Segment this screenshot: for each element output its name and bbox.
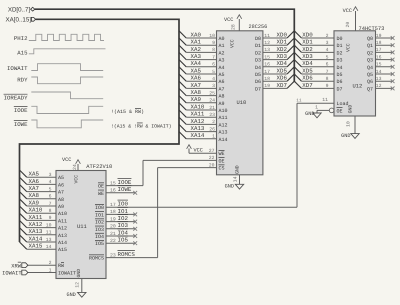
svg-text:7: 7	[326, 69, 329, 75]
svg-text:4: 4	[212, 76, 215, 82]
svg-text:VCC: VCC	[224, 17, 233, 23]
svg-text:8: 8	[326, 76, 329, 82]
svg-text:A9: A9	[58, 204, 64, 210]
svg-text:XA11: XA11	[191, 111, 205, 118]
svg-text:Q4: Q4	[367, 65, 373, 71]
svg-text:A7: A7	[58, 190, 64, 196]
svg-text:D3: D3	[255, 58, 261, 64]
svg-text:D0: D0	[255, 36, 261, 42]
svg-text:D7: D7	[337, 86, 343, 92]
svg-text:26: 26	[209, 126, 215, 132]
svg-text:XD2: XD2	[277, 46, 288, 53]
svg-text:15: 15	[376, 62, 382, 68]
svg-text:4: 4	[326, 47, 329, 53]
svg-text:6: 6	[212, 62, 215, 68]
svg-text:A14: A14	[219, 137, 228, 143]
svg-text:XA0: XA0	[191, 31, 202, 38]
svg-text:XA10: XA10	[29, 207, 43, 214]
svg-text:XA6: XA6	[29, 178, 40, 185]
svg-text:U12: U12	[353, 84, 363, 90]
svg-text:16: 16	[376, 54, 382, 60]
svg-text:9: 9	[49, 215, 52, 221]
svg-text:5: 5	[49, 186, 52, 192]
svg-text:A3: A3	[219, 58, 225, 64]
svg-text:D2: D2	[337, 50, 343, 56]
svg-text:D6: D6	[337, 79, 343, 85]
svg-text:A8: A8	[219, 94, 225, 100]
svg-text:24: 24	[72, 164, 78, 170]
svg-text:4: 4	[49, 179, 52, 185]
svg-text:D7: D7	[255, 86, 261, 92]
svg-text:13: 13	[376, 76, 382, 82]
svg-text:A13: A13	[219, 130, 228, 136]
svg-text:XA[0..15]: XA[0..15]	[6, 17, 32, 24]
svg-text:A7: A7	[219, 86, 225, 92]
svg-text:11: 11	[296, 98, 302, 103]
svg-text:XA13: XA13	[29, 228, 43, 235]
svg-text:VCC: VCC	[343, 8, 352, 14]
svg-text:2: 2	[326, 33, 329, 39]
svg-text:GND: GND	[305, 111, 314, 117]
svg-text:D4: D4	[337, 65, 343, 71]
svg-text:IO3: IO3	[118, 222, 129, 229]
svg-text:6: 6	[49, 194, 52, 200]
svg-text:IOOE: IOOE	[14, 107, 28, 114]
svg-text:13: 13	[264, 47, 270, 53]
svg-text:XA7: XA7	[29, 185, 40, 192]
svg-text:XD4: XD4	[277, 60, 288, 67]
svg-text:9: 9	[326, 83, 329, 89]
svg-text:A13: A13	[58, 233, 67, 239]
svg-text:8: 8	[212, 47, 215, 53]
svg-text:24: 24	[209, 98, 215, 104]
svg-text:D2: D2	[255, 50, 261, 56]
svg-text:14: 14	[376, 69, 382, 75]
svg-text:OE: OE	[337, 108, 343, 114]
svg-text:PHI2: PHI2	[14, 35, 28, 42]
svg-text:XD3: XD3	[302, 53, 313, 60]
svg-text:74HCT573: 74HCT573	[359, 26, 385, 32]
svg-text:28C256: 28C256	[249, 24, 268, 30]
svg-text:IO1: IO1	[118, 208, 129, 215]
svg-text:U10: U10	[237, 100, 247, 106]
svg-text:A15: A15	[17, 49, 28, 56]
svg-text:IO1: IO1	[95, 212, 104, 218]
svg-text:13: 13	[46, 237, 52, 243]
svg-text:17: 17	[376, 47, 382, 53]
svg-text:Q0: Q0	[367, 36, 373, 42]
svg-text:XA14: XA14	[29, 235, 43, 242]
svg-text:25: 25	[209, 90, 215, 96]
svg-text:18: 18	[264, 76, 270, 82]
svg-text:XD0: XD0	[277, 31, 288, 38]
svg-text:IOWE: IOWE	[118, 186, 132, 193]
svg-text:XRW: XRW	[11, 263, 21, 269]
svg-text:D6: D6	[255, 79, 261, 85]
svg-text:27: 27	[209, 148, 215, 154]
svg-text:IO2: IO2	[95, 220, 104, 226]
svg-text:Q6: Q6	[367, 79, 373, 85]
svg-text:15: 15	[264, 54, 270, 60]
svg-text:2: 2	[212, 119, 215, 125]
svg-text:XA7: XA7	[191, 82, 202, 89]
svg-text:XA2: XA2	[191, 46, 202, 53]
svg-text:GND: GND	[66, 292, 75, 298]
svg-text:CS: CS	[219, 166, 225, 172]
svg-text:1: 1	[315, 105, 318, 111]
svg-text:A9: A9	[219, 101, 225, 107]
svg-text:A12: A12	[58, 226, 67, 232]
svg-text:IOOE: IOOE	[118, 179, 132, 186]
svg-text:A12: A12	[219, 122, 228, 128]
svg-text:XA12: XA12	[191, 118, 205, 125]
svg-text:XA10: XA10	[191, 103, 205, 110]
svg-text:XD4: XD4	[302, 60, 313, 67]
svg-text:U11: U11	[77, 224, 87, 230]
svg-text:19: 19	[264, 83, 270, 89]
svg-text:20: 20	[209, 162, 215, 168]
svg-text:VCC: VCC	[62, 157, 71, 163]
svg-text:D5: D5	[337, 72, 343, 78]
svg-text:IO5: IO5	[118, 237, 129, 244]
svg-text:WE: WE	[219, 151, 225, 157]
svg-text:18: 18	[376, 40, 382, 46]
svg-text:20: 20	[345, 22, 351, 28]
svg-text:3: 3	[49, 172, 52, 178]
svg-text:17: 17	[264, 69, 270, 75]
svg-text:XD5: XD5	[277, 67, 288, 74]
svg-text:7: 7	[212, 54, 215, 60]
svg-text:12: 12	[74, 282, 80, 288]
svg-text:XA1: XA1	[191, 39, 202, 46]
svg-text:XD6: XD6	[277, 75, 288, 82]
svg-text:A6: A6	[58, 182, 64, 188]
svg-text:OE: OE	[98, 184, 104, 190]
svg-text:1: 1	[49, 267, 52, 273]
svg-text:A5: A5	[219, 72, 225, 78]
svg-text:D5: D5	[255, 72, 261, 78]
svg-text:Q2: Q2	[367, 50, 373, 56]
svg-text:VCC: VCC	[230, 39, 236, 48]
svg-text:IOWAIT: IOWAIT	[7, 65, 28, 72]
svg-text:RW: RW	[58, 263, 64, 269]
svg-text:A0: A0	[219, 36, 225, 42]
svg-text:XD5: XD5	[302, 67, 313, 74]
svg-text:D3: D3	[337, 58, 343, 64]
svg-text:22: 22	[209, 155, 215, 161]
svg-text:GND: GND	[235, 165, 241, 174]
svg-text:12: 12	[264, 40, 270, 46]
svg-text:XA6: XA6	[191, 75, 202, 82]
svg-text:A11: A11	[219, 115, 228, 121]
svg-text:XD1: XD1	[277, 39, 288, 46]
svg-text:XA13: XA13	[191, 125, 205, 132]
svg-text:Q3: Q3	[367, 58, 373, 64]
svg-text:IO4: IO4	[95, 234, 104, 240]
svg-text:3: 3	[212, 83, 215, 89]
svg-text:XA14: XA14	[191, 132, 205, 139]
svg-text:XA5: XA5	[29, 171, 40, 178]
svg-text:16: 16	[264, 62, 270, 68]
svg-text:A5: A5	[58, 175, 64, 181]
svg-text:XA9: XA9	[29, 199, 40, 206]
svg-text:IOREADY: IOREADY	[4, 95, 28, 102]
svg-text:A6: A6	[219, 79, 225, 85]
svg-text:VCC: VCC	[194, 147, 203, 153]
svg-text:IO5: IO5	[95, 241, 104, 247]
svg-text:2: 2	[49, 260, 52, 266]
svg-text:10: 10	[46, 222, 52, 228]
svg-text:XA8: XA8	[191, 89, 202, 96]
svg-text:11: 11	[264, 33, 270, 39]
svg-text:14: 14	[46, 244, 52, 250]
svg-text:7: 7	[49, 201, 52, 207]
svg-text:Q7: Q7	[367, 86, 373, 92]
svg-text:A11: A11	[58, 218, 67, 224]
svg-text:A4: A4	[219, 65, 225, 71]
svg-text:XA12: XA12	[29, 221, 43, 228]
svg-text:XD1: XD1	[302, 39, 313, 46]
svg-text:A2: A2	[219, 50, 225, 56]
svg-text:XA8: XA8	[29, 192, 40, 199]
svg-text:9: 9	[212, 40, 215, 46]
svg-text:Q1: Q1	[367, 43, 373, 49]
svg-text:IO0: IO0	[95, 205, 104, 211]
svg-text:A14: A14	[58, 240, 67, 246]
svg-text:10: 10	[209, 33, 215, 39]
svg-text:VCC: VCC	[74, 175, 80, 184]
svg-text:10: 10	[346, 121, 352, 127]
svg-text:RDY: RDY	[17, 76, 28, 83]
svg-text:GND: GND	[76, 269, 82, 278]
svg-text:A10: A10	[219, 108, 228, 114]
svg-text:19: 19	[376, 33, 382, 39]
svg-text:XD[0..7]: XD[0..7]	[8, 6, 31, 13]
svg-text:GND: GND	[341, 133, 350, 139]
svg-text:D0: D0	[337, 36, 343, 42]
svg-text:IOWAIT: IOWAIT	[58, 271, 76, 277]
svg-text:6: 6	[326, 62, 329, 68]
svg-text:IOWE: IOWE	[14, 121, 28, 128]
svg-text:D1: D1	[255, 43, 261, 49]
svg-text:D4: D4	[255, 65, 261, 71]
svg-text:VCC: VCC	[346, 43, 352, 52]
svg-text:!(A15 & RW): !(A15 & RW)	[111, 109, 144, 115]
svg-text:12: 12	[376, 83, 382, 89]
svg-text:23: 23	[209, 112, 215, 118]
svg-text:XA4: XA4	[191, 60, 202, 67]
svg-text:A10: A10	[58, 211, 67, 217]
svg-text:ROMCS: ROMCS	[89, 256, 104, 262]
svg-text:3: 3	[326, 40, 329, 46]
svg-text:GND: GND	[225, 183, 234, 189]
svg-text:IO2: IO2	[118, 215, 129, 222]
svg-text:IO0: IO0	[118, 201, 129, 208]
svg-text:XA11: XA11	[29, 214, 43, 221]
svg-text:IO3: IO3	[95, 227, 104, 233]
svg-text:8: 8	[49, 208, 52, 214]
svg-text:Load: Load	[337, 101, 349, 107]
svg-text:XD7: XD7	[277, 82, 288, 89]
svg-text:XA15: XA15	[29, 243, 43, 250]
svg-text:Q5: Q5	[367, 72, 373, 78]
svg-text:XD2: XD2	[302, 46, 313, 53]
svg-text:A8: A8	[58, 197, 64, 203]
svg-text:A15: A15	[58, 247, 67, 253]
svg-text:XA9: XA9	[191, 96, 202, 103]
svg-text:5: 5	[212, 69, 215, 75]
svg-text:A1: A1	[219, 43, 225, 49]
svg-text:21: 21	[209, 105, 215, 111]
svg-text:14: 14	[233, 176, 239, 182]
svg-text:28: 28	[231, 24, 237, 30]
svg-text:11: 11	[322, 97, 328, 103]
svg-text:XA5: XA5	[191, 67, 202, 74]
svg-text:IOWAIT: IOWAIT	[2, 271, 22, 277]
svg-text:XD0: XD0	[302, 31, 313, 38]
svg-text:OE: OE	[219, 158, 225, 164]
svg-text:!(A15 & !RW & IOWAIT): !(A15 & !RW & IOWAIT)	[111, 124, 172, 130]
svg-text:1: 1	[212, 134, 215, 140]
svg-text:XD7: XD7	[302, 82, 313, 89]
svg-text:WE: WE	[98, 191, 104, 197]
svg-text:ATF22V10: ATF22V10	[86, 164, 112, 170]
svg-text:XA3: XA3	[191, 53, 202, 60]
svg-text:XD3: XD3	[277, 53, 288, 60]
svg-text:D1: D1	[337, 43, 343, 49]
svg-text:IO4: IO4	[118, 229, 129, 236]
svg-text:XD6: XD6	[302, 75, 313, 82]
svg-text:ROMCS: ROMCS	[118, 251, 136, 258]
svg-text:5: 5	[326, 54, 329, 60]
svg-text:11: 11	[46, 230, 52, 236]
